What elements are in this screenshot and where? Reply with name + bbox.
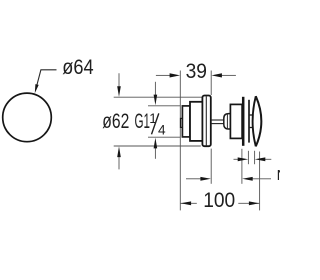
- flange: [202, 96, 210, 147]
- extension line left (tail end, for 39 and 100): [179, 71, 181, 211]
- threaded stub: [182, 106, 190, 137]
- extension line dia62 bottom: [114, 145, 201, 147]
- flange inner line: [205, 96, 207, 145]
- dim mid left tail: [186, 178, 201, 180]
- extension line seal face (for mid dim): [241, 149, 243, 184]
- dim 100 line left: [181, 202, 197, 204]
- cap dome right arc: [256, 96, 262, 146]
- nub on tail end: [181, 118, 183, 127]
- dim G arrow down shaft: [154, 82, 156, 96]
- svg-text:ø62: ø62: [102, 109, 129, 133]
- dim mid left arrow: [200, 177, 211, 181]
- dim dia62 arrow down head: [117, 86, 121, 97]
- dim small left tail: [234, 158, 240, 160]
- rod bottom line: [211, 123, 224, 125]
- valve body: [190, 102, 202, 141]
- extension line cap right end (for 100): [259, 152, 261, 211]
- svg-text:N: N: [277, 168, 280, 184]
- dim dia62 arrow up head: [117, 146, 121, 157]
- svg-text:ø64: ø64: [62, 55, 93, 79]
- dim 39 left arrow: [170, 73, 181, 77]
- dim small right arrow: [255, 157, 265, 161]
- hub crossbar top: [250, 114, 253, 116]
- dim mid right tail: [253, 178, 272, 180]
- cap dome left arc: [253, 96, 256, 146]
- dim 39 right arrow: [211, 73, 222, 77]
- dim 100 right arrow: [249, 201, 260, 205]
- leader dia64 line: [36, 70, 57, 90]
- dim G arrow down head: [154, 95, 158, 106]
- hub vertical line: [248, 100, 250, 143]
- dim G arrow up shaft: [154, 147, 156, 159]
- bell nut inner line: [226, 114, 228, 129]
- dim dia62 arrow up shaft: [118, 155, 120, 169]
- dim small right tail: [264, 158, 271, 160]
- svg-text:4: 4: [158, 122, 166, 137]
- dim mid right arrow: [242, 177, 253, 181]
- plug cylinder: [230, 104, 242, 138]
- dim small left arrow: [238, 157, 249, 161]
- svg-text:39: 39: [186, 59, 207, 83]
- svg-text:G1: G1: [135, 109, 151, 133]
- extension line small dim left: [247, 151, 249, 164]
- fraction slash: [152, 113, 159, 134]
- hub crossbar bottom: [250, 127, 253, 129]
- dim dia62 arrow down shaft: [118, 73, 120, 88]
- leader dia64 arrow: [35, 84, 39, 93]
- svg-text:100: 100: [203, 188, 235, 212]
- extension line flange right face upper (for 39): [210, 71, 212, 96]
- dim 39 right tail: [221, 74, 236, 76]
- extension line G1-1/4 bottom: [148, 136, 180, 138]
- rod top line: [211, 119, 224, 121]
- cap front view circle: [3, 93, 52, 142]
- extension line small dim right: [254, 151, 256, 164]
- dim 39 left tail: [156, 74, 171, 76]
- seal washer bar: [242, 97, 245, 146]
- extension line dia62 top: [114, 96, 202, 98]
- bell nut: [224, 114, 231, 129]
- dim G arrow up head: [154, 138, 158, 149]
- extension line G1-1/4 top: [148, 105, 180, 107]
- dim 100 left arrow: [181, 201, 192, 205]
- extension line flange right face lower (for mid dim): [210, 149, 212, 184]
- dim 100 line right: [238, 202, 259, 204]
